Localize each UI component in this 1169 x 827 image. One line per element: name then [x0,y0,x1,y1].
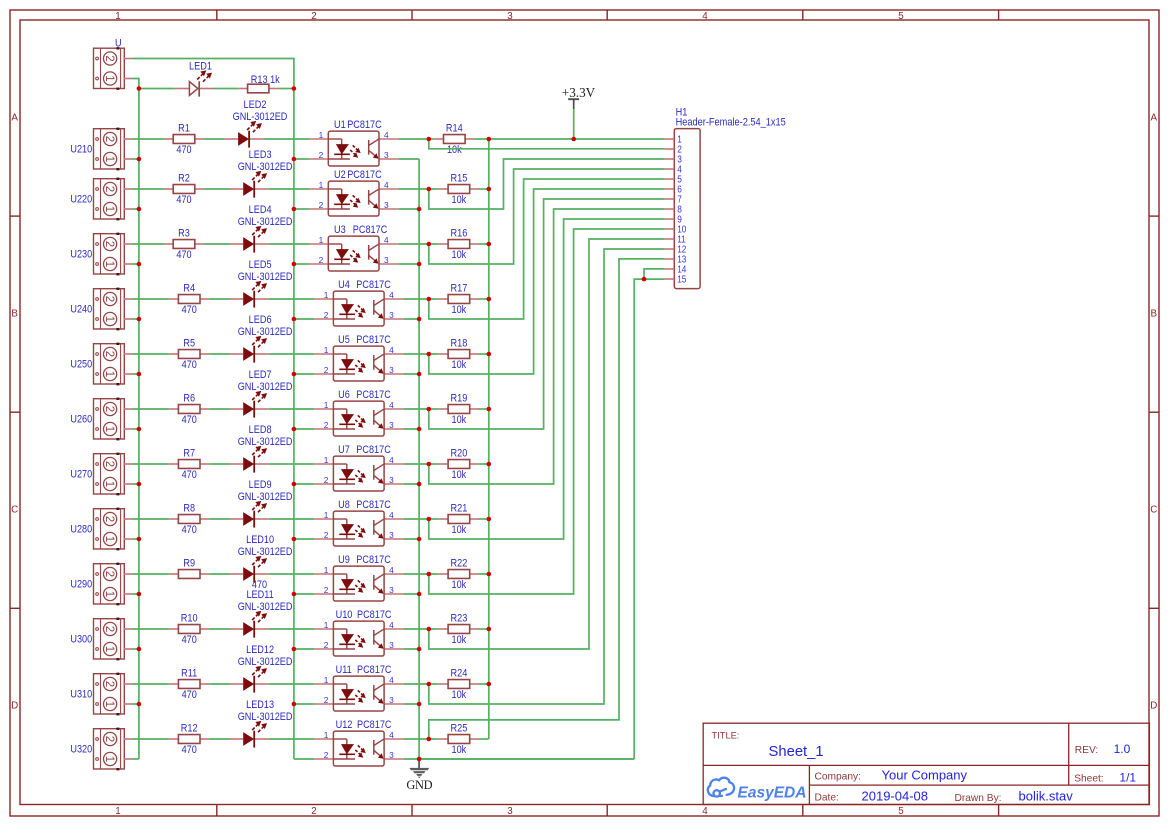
junction pin14-15 [642,277,647,282]
wire U7 collector to H1 pin 8 [429,209,665,484]
svg-text:2: 2 [103,461,115,467]
optocoupler U11 [314,683,333,685]
svg-text:PC817C: PC817C [356,444,391,456]
svg-text:R17: R17 [451,282,468,294]
junction emitter bus row 12 [417,757,422,762]
svg-text:R21: R21 [451,502,468,514]
resistor R2 [164,188,173,190]
svg-text:2: 2 [324,420,329,430]
svg-text:LED3: LED3 [249,149,272,161]
svg-text:U5: U5 [338,334,350,346]
svg-text:1: 1 [103,646,115,652]
wire U9 collector to H1 pin 10 [429,229,665,594]
svg-text:2: 2 [103,626,115,632]
optocoupler U4 [314,298,333,300]
svg-text:4: 4 [389,400,394,410]
wire LED11 to U10 pin1 [269,628,314,630]
wire U220 pin2 to R2 [132,188,164,190]
resistor R25 [439,738,448,740]
svg-text:10k: 10k [452,249,467,261]
svg-text:R11: R11 [181,668,197,680]
wire U10 pin4 to R23 [403,628,428,630]
diode LED10 [230,573,244,575]
wire H1 pin1 3.3V line [489,138,665,140]
svg-text:Sheet_1: Sheet_1 [769,744,824,760]
diode LED9 [230,518,244,520]
svg-text:GNL-3012ED: GNL-3012ED [238,381,293,393]
svg-text:2: 2 [103,516,115,522]
junction emitter bus row 11 [417,702,422,707]
wire LED1 anode [139,88,174,90]
resistor R24 [439,683,448,685]
svg-text:2: 2 [324,640,329,650]
optocoupler U5 [314,353,333,355]
junction left bus row 8 [137,537,142,542]
svg-text:2: 2 [311,806,316,817]
connector H1 [674,129,700,289]
junction left bus row 6 [137,427,142,432]
wire U260 pin1 to bus [132,428,139,430]
wire U6 pin3 emitter [403,428,419,430]
junction bus294 row 2 [292,207,297,212]
svg-text:R15: R15 [451,172,468,184]
svg-text:2: 2 [103,296,115,302]
svg-text:R16: R16 [451,227,468,239]
wire LED5 to U4 pin1 [269,298,314,300]
svg-text:GND: GND [406,778,432,792]
wire U290 pin2 to R9 [132,573,169,575]
wire U10 collector to H1 pin 11 [429,239,665,649]
svg-text:4: 4 [389,345,394,355]
svg-text:R19: R19 [451,392,468,404]
svg-text:PC817C: PC817C [353,224,388,236]
wire U7 pin3 emitter [403,483,419,485]
svg-text:4: 4 [389,730,394,740]
junction rail row 9 [487,572,492,577]
junction collector node U1 [427,137,432,142]
wire U320 pin1 to bus [132,758,139,760]
resistor R17 [439,298,448,300]
wire U210 pin2 to R1 [132,138,164,140]
resistor R5 [169,353,178,355]
junction left bus row 7 [137,482,142,487]
svg-text:GNL-3012ED: GNL-3012ED [238,711,293,723]
connector U [94,48,125,88]
svg-text:GNL-3012ED: GNL-3012ED [238,601,293,613]
junction bus294 row 10 [292,647,297,652]
wire R14 to rail [429,138,434,140]
svg-text:2: 2 [103,406,115,412]
wire U3 pin4 to R16 [398,243,429,245]
svg-text:2019-04-08: 2019-04-08 [862,789,929,804]
svg-text:GNL-3012ED: GNL-3012ED [233,111,288,123]
svg-text:2: 2 [103,136,115,142]
wire LED12 to U11 pin1 [269,683,314,685]
wire U5 pin3 emitter [403,373,419,375]
svg-text:1k: 1k [270,74,280,86]
junction bus294 row 3 [292,262,297,267]
wire U1 pin4 to R14 [398,138,429,140]
svg-text:R13: R13 [251,74,268,86]
wire U280 pin2 to R8 [132,518,169,520]
wire R2 to LED3 [204,188,230,190]
svg-text:1/1: 1/1 [1119,770,1136,784]
junction collector node U3 [427,242,432,247]
wire U11 pin4 to R24 [403,683,428,685]
junction rail row 10 [487,627,492,632]
wire R19 to rail [429,408,439,410]
svg-text:LED7: LED7 [249,369,272,381]
wire U2 pin2 to bus [294,208,309,210]
junction collector node U9 [427,572,432,577]
wire R16 to rail [429,243,439,245]
svg-text:D: D [11,701,18,712]
svg-text:PC817C: PC817C [356,499,391,511]
wire U11 pin2 to bus [294,703,314,705]
wire LED7 to U6 pin1 [269,408,314,410]
svg-text:1: 1 [324,345,329,355]
wire LED9 to U8 pin1 [269,518,314,520]
svg-text:Header-Female-2.54_1x15: Header-Female-2.54_1x15 [676,116,786,128]
svg-text:B: B [11,309,18,320]
junction emitter bus row 9 [417,592,422,597]
wire U260 pin2 to R6 [132,408,169,410]
junction bus294 row 7 [292,482,297,487]
svg-text:Your Company: Your Company [882,768,968,783]
svg-text:R10: R10 [181,613,198,625]
junction left bus row 1 [137,157,142,162]
diode LED3 [230,188,244,190]
svg-text:R6: R6 [183,393,195,405]
svg-text:R8: R8 [183,503,195,515]
svg-text:10k: 10k [452,469,467,481]
wire U300 pin1 to bus [132,648,139,650]
wire U6 collector to H1 pin 7 [429,199,665,429]
svg-text:R2: R2 [178,173,190,185]
junction emitter bus row 7 [417,482,422,487]
wire U10 pin3 emitter [403,648,419,650]
svg-text:3: 3 [389,750,394,760]
junction collector node U2 [427,187,432,192]
diode LED12 [230,683,244,685]
svg-text:GNL-3012ED: GNL-3012ED [238,161,293,173]
wire R8 to LED9 [209,518,229,520]
junction collector node U4 [427,297,432,302]
svg-text:GNL-3012ED: GNL-3012ED [238,216,293,228]
optocoupler U9 [314,573,333,575]
svg-text:R1: R1 [178,123,190,135]
svg-text:2: 2 [103,681,115,687]
wire U11 collector to H1 pin 12 [429,249,665,704]
svg-text:470: 470 [182,689,197,701]
wire U280 pin1 to bus [132,538,139,540]
svg-text:Company:: Company: [815,772,861,783]
svg-text:10k: 10k [452,359,467,371]
wire U4 collector to H1 pin 5 [429,179,665,319]
wire U1 collector to H1 pin 2 [429,139,665,149]
svg-text:PC817C: PC817C [357,609,392,621]
svg-text:1: 1 [103,591,115,597]
optocoupler U6 [314,408,333,410]
junction emitter bus row 10 [417,647,422,652]
junction bus294 row 1 [292,157,297,162]
resistor R10 [169,628,178,630]
wire R24 to rail [429,683,439,685]
wire R23 to rail [429,628,439,630]
svg-text:D: D [1150,701,1157,712]
svg-text:U310: U310 [70,689,92,701]
svg-text:U9: U9 [338,554,350,566]
svg-text:3: 3 [507,11,513,22]
wire U1 pin3 emitter [398,158,419,160]
wire U2 pin4 to R15 [398,188,429,190]
svg-text:470: 470 [182,414,197,426]
junction bus294 row 8 [292,537,297,542]
svg-text:2: 2 [103,351,115,357]
svg-text:Drawn By:: Drawn By: [955,793,1002,804]
svg-text:470: 470 [182,304,197,316]
junction rail row 8 [487,517,492,522]
svg-text:R24: R24 [451,667,468,679]
connector U240 [94,289,125,329]
svg-text:2: 2 [324,365,329,375]
junction emitter bus row 8 [417,537,422,542]
svg-text:10k: 10k [447,144,462,156]
connector U320 [94,729,125,769]
svg-text:10k: 10k [452,304,467,316]
svg-text:2: 2 [319,150,324,160]
svg-text:R22: R22 [451,557,468,569]
wire U230 pin1 to bus [132,263,139,265]
svg-text:10k: 10k [452,634,467,646]
svg-text:1: 1 [103,481,115,487]
junction emitter bus row 2 [417,207,422,212]
wire U8 pin4 to R21 [403,518,428,520]
svg-text:1: 1 [103,206,115,212]
wire U5 pin4 to R18 [403,353,428,355]
svg-text:R25: R25 [451,722,468,734]
svg-text:1: 1 [324,565,329,575]
title block [703,723,1149,804]
power +3.3V [573,109,575,139]
wire R7 to LED8 [209,463,229,465]
svg-text:U1: U1 [334,119,346,131]
svg-text:4: 4 [389,455,394,465]
connector U260 [94,399,125,439]
resistor R20 [439,463,448,465]
svg-text:1: 1 [103,261,115,267]
svg-text:PC817C: PC817C [356,389,391,401]
wire U3 pin2 to bus [294,263,309,265]
wire U6 pin2 to bus [294,428,314,430]
svg-text:3: 3 [384,200,389,210]
wire U290 pin1 to bus [132,593,139,595]
wire U240 pin1 to bus [132,318,139,320]
svg-text:4: 4 [389,620,394,630]
svg-text:GNL-3012ED: GNL-3012ED [238,326,293,338]
wire U11 pin3 emitter [403,703,419,705]
svg-text:U230: U230 [70,249,92,261]
svg-text:PC817C: PC817C [347,169,382,181]
junction collector node U5 [427,352,432,357]
svg-text:1: 1 [324,730,329,740]
resistor R7 [169,463,178,465]
junction left bus row 2 [137,207,142,212]
connector U210 [94,129,125,169]
junction 3.3V rail top [571,137,576,142]
svg-text:1: 1 [103,156,115,162]
junction emitter bus row 6 [417,427,422,432]
svg-text:U11: U11 [336,664,352,676]
svg-text:470: 470 [182,744,197,756]
svg-text:2: 2 [324,585,329,595]
svg-text:LED5: LED5 [249,259,272,271]
wire U230 pin2 to R3 [132,243,164,245]
svg-text:LED8: LED8 [249,424,272,436]
junction collector node U7 [427,462,432,467]
junction rail row 11 [487,682,492,687]
resistor R9 [169,573,178,575]
svg-text:2: 2 [311,11,316,22]
svg-text:R12: R12 [181,723,198,735]
svg-text:U280: U280 [70,524,92,536]
wire R20 to rail [429,463,439,465]
connector U250 [94,344,125,384]
svg-text:4: 4 [384,235,389,245]
wire gnd row to riser [419,758,634,760]
svg-text:3: 3 [389,695,394,705]
svg-text:PC817C: PC817C [356,334,391,346]
svg-text:R5: R5 [183,338,195,350]
junction collector node U11 [427,682,432,687]
svg-text:2: 2 [324,695,329,705]
wire U2 pin3 emitter [398,208,419,210]
wire U6 pin4 to R19 [403,408,428,410]
svg-text:U: U [115,38,122,50]
svg-text:10k: 10k [452,194,467,206]
svg-text:3: 3 [389,365,394,375]
wire U250 pin2 to R5 [132,353,169,355]
svg-text:LED10: LED10 [246,534,274,546]
junction bus294 row 11 [292,702,297,707]
junction left bus row 11 [137,702,142,707]
svg-text:B: B [1151,309,1158,320]
svg-text:A: A [1151,113,1158,124]
optocoupler U3 [309,243,328,245]
svg-text:A: A [11,113,18,124]
wire U10 pin2 to bus [294,648,314,650]
svg-text:1: 1 [103,371,115,377]
svg-text:U210: U210 [70,144,92,156]
svg-text:C: C [1150,505,1157,516]
svg-text:U10: U10 [336,609,353,621]
svg-text:U270: U270 [70,469,92,481]
svg-text:1: 1 [324,290,329,300]
wire H1 pin15 gnd riser [634,279,665,759]
svg-text:PC817C: PC817C [356,279,391,291]
resistor R18 [439,353,448,355]
svg-text:R23: R23 [451,612,468,624]
svg-text:LED9: LED9 [249,479,272,491]
resistor R16 [439,243,448,245]
svg-text:4: 4 [389,565,394,575]
svg-text:4: 4 [389,290,394,300]
svg-text:4: 4 [702,11,708,22]
svg-text:R14: R14 [446,122,463,134]
resistor R12 [169,738,178,740]
wire LED8 to U7 pin1 [269,463,314,465]
svg-text:1: 1 [103,316,115,322]
wire 3.3V rail vertical [488,139,490,739]
svg-text:LED1: LED1 [189,61,212,73]
svg-text:3: 3 [507,806,513,817]
svg-text:2: 2 [103,186,115,192]
wire U220 pin1 to bus [132,208,139,210]
wire R22 to rail [429,573,439,575]
svg-text:U240: U240 [70,304,92,316]
svg-text:3: 3 [389,530,394,540]
svg-text:bolik.stav: bolik.stav [1019,789,1074,804]
svg-text:PC817C: PC817C [357,664,392,676]
svg-text:TITLE:: TITLE: [712,731,740,741]
wire R9 to LED10 [209,573,229,575]
wire U3 pin3 emitter [398,263,419,265]
svg-text:470: 470 [182,469,197,481]
svg-text:3: 3 [389,310,394,320]
wire U1 pin2 to bus [294,158,309,160]
svg-text:U320: U320 [70,744,92,756]
junction left bus row 10 [137,647,142,652]
connector U290 [94,564,125,604]
wire R5 to LED6 [209,353,229,355]
svg-text:LED4: LED4 [249,204,272,216]
wire U8 collector to H1 pin 9 [429,219,665,539]
svg-text:Sheet:: Sheet: [1074,774,1103,785]
svg-text:1: 1 [115,11,120,22]
wire U300 pin2 to R10 [132,628,169,630]
optocoupler U7 [314,463,333,465]
resistor R8 [169,518,178,520]
svg-text:470: 470 [176,194,191,206]
wire U12 pin3 emitter [403,758,634,760]
wire U5 collector to H1 pin 6 [429,189,665,374]
svg-text:R3: R3 [178,228,190,240]
wire R12 to LED13 [209,738,229,740]
wire LED1 to R13 [214,88,239,90]
svg-text:LED12: LED12 [246,644,274,656]
wire U12 pin4 to R25 [403,738,428,740]
wire R6 to LED7 [209,408,229,410]
svg-text:2: 2 [103,55,115,61]
junction emitter bus row 5 [417,372,422,377]
wire R10 to LED11 [209,628,229,630]
connector U280 [94,509,125,549]
junction bus294 row 6 [292,427,297,432]
svg-text:2: 2 [319,255,324,265]
connector U220 [94,179,125,219]
svg-text:U220: U220 [70,194,92,206]
junction emitter bus row 4 [417,317,422,322]
wire R21 to rail [429,518,439,520]
wire U7 pin4 to R20 [403,463,428,465]
junction collector node U12 [427,737,432,742]
svg-text:R7: R7 [183,448,195,460]
wire R18 to rail [429,353,439,355]
svg-text:1: 1 [324,455,329,465]
junction bus294 row 5 [292,372,297,377]
svg-text:R9: R9 [183,558,195,570]
optocoupler U8 [314,518,333,520]
